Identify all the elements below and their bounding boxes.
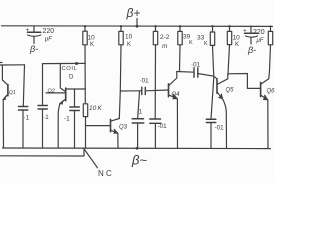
svg-text:K: K [189, 40, 193, 46]
svg-text:220: 220 [253, 29, 265, 36]
transistor Q2 [46, 64, 66, 104]
svg-text:μF: μF [256, 38, 264, 44]
capacitor C8 .01 [150, 45, 167, 148]
transistor Q5 [217, 74, 234, 99]
svg-text:Q1: Q1 [9, 90, 16, 96]
wire stage1 collector top [0, 64, 25, 66]
svg-text:Q5: Q5 [226, 88, 235, 94]
wire stage1 right drop [23, 65, 24, 106]
svg-text:β-: β- [247, 45, 256, 55]
svg-text:+: + [243, 28, 247, 35]
svg-text:10: 10 [125, 34, 133, 41]
wire Q6 emitter drop [267, 100, 269, 148]
svg-text:β~: β~ [131, 153, 147, 168]
resistor R3 2.2M [153, 25, 169, 50]
svg-text:β-: β- [29, 44, 38, 54]
svg-text:K: K [204, 41, 208, 47]
capacitor C5 .1 [64, 107, 79, 148]
svg-text:Q2: Q2 [48, 89, 55, 95]
svg-text:K: K [90, 42, 94, 48]
wire stage2 left drop [42, 64, 44, 105]
svg-text:·01: ·01 [140, 78, 150, 85]
capacitor C6 .01 coupling [140, 78, 150, 95]
resistor R8 10K lower [83, 104, 102, 148]
resistor R7 [268, 26, 272, 45]
wire B+ lead [136, 19, 138, 27]
wire bottom ground rail [3, 147, 271, 150]
wire Q2 emitter drop [58, 104, 60, 148]
svg-text:Q4: Q4 [172, 92, 181, 98]
svg-text:·1: ·1 [137, 109, 143, 116]
svg-text:D: D [69, 74, 74, 81]
capacitor C3 .1 [19, 107, 30, 149]
transistor Q1 [2, 65, 15, 100]
wire left edge stub [0, 62, 2, 64]
svg-text:10: 10 [233, 35, 241, 42]
svg-text:Q3: Q3 [119, 125, 128, 131]
resistor R6 10K [227, 25, 240, 48]
svg-text:-1: -1 [64, 116, 70, 123]
transistor Q4 [169, 72, 181, 99]
resistor R4 39K [178, 25, 193, 46]
capacitor C2 220uF [243, 26, 265, 44]
svg-text:220: 220 [43, 28, 55, 35]
resistor R2 10K [119, 25, 133, 48]
wire NC pointer [85, 150, 98, 168]
resistor R5 33K [197, 25, 215, 47]
wire interstage line y72 [179, 45, 182, 72]
svg-text:K: K [235, 42, 239, 48]
transistor Q3 [111, 119, 128, 134]
svg-text:10: 10 [88, 35, 96, 42]
node junction dot coil [75, 62, 78, 65]
svg-text:Q6: Q6 [267, 89, 276, 95]
svg-text:N C: N C [98, 169, 112, 178]
wire Q5 emitter drop [223, 99, 227, 148]
capacitor C9 .01 coupling [191, 62, 201, 78]
capacitor C10 .01 [206, 45, 224, 148]
wire Q3 emitter drop [117, 133, 119, 148]
wire Q5-Q6 coupling [228, 74, 261, 89]
svg-text:·1: ·1 [43, 114, 49, 121]
wire stage2 collector top [43, 62, 86, 64]
wire lower return rail [0, 148, 84, 156]
wire Q5 collector riser [228, 45, 230, 75]
capacitor C7 .1 [132, 91, 144, 148]
svg-text:-01: -01 [215, 125, 225, 132]
wire emitter bypass branch [67, 88, 86, 90]
wire Q1 emitter drop [2, 100, 4, 149]
wire top supply rail [2, 25, 273, 28]
wire interstage line y91 [120, 90, 141, 92]
wire Q3 base [86, 125, 111, 127]
capacitor C4 .1 [38, 106, 49, 149]
svg-text:2-2: 2-2 [160, 34, 170, 41]
wire Q4 emitter drop [176, 99, 178, 148]
capacitor C1 220uF [26, 26, 55, 44]
svg-text:m: m [162, 43, 168, 50]
wire Q3 collector riser [119, 45, 121, 119]
svg-text:·01: ·01 [191, 62, 201, 69]
transistor Q6 [261, 71, 276, 101]
resistor R1 10K [83, 25, 95, 103]
wire Q6 collector riser [270, 45, 271, 71]
svg-text:10 K: 10 K [89, 105, 103, 112]
svg-text:μF: μF [44, 37, 52, 43]
svg-text:β+: β+ [126, 6, 141, 20]
svg-text:K: K [127, 42, 131, 48]
svg-text:COIL: COIL [62, 66, 78, 72]
svg-text:+: + [26, 27, 30, 34]
svg-text:·1: ·1 [24, 115, 30, 122]
svg-text:-01: -01 [158, 123, 168, 130]
